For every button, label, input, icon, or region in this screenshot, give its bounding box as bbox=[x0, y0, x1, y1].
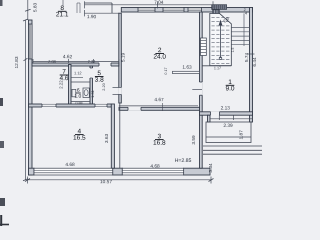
svg-text:2.20: 2.20 bbox=[101, 82, 106, 90]
svg-text:1.63: 1.63 bbox=[182, 65, 192, 71]
svg-text:2.13: 2.13 bbox=[221, 105, 231, 111]
svg-text:7.04: 7.04 bbox=[154, 0, 164, 6]
svg-text:1.12: 1.12 bbox=[74, 70, 82, 75]
svg-text:9.0: 9.0 bbox=[225, 85, 234, 92]
svg-text:2.39: 2.39 bbox=[223, 123, 233, 129]
svg-text:0.88: 0.88 bbox=[75, 101, 82, 105]
svg-text:5.19: 5.19 bbox=[120, 53, 126, 63]
svg-text:4.67: 4.67 bbox=[154, 97, 164, 103]
svg-text:3.34: 3.34 bbox=[208, 163, 214, 173]
svg-text:2.08: 2.08 bbox=[48, 59, 56, 64]
svg-text:6.44: 6.44 bbox=[252, 57, 258, 67]
svg-text:4.62: 4.62 bbox=[63, 54, 73, 60]
svg-text:1.17: 1.17 bbox=[214, 66, 221, 70]
svg-text:1.90: 1.90 bbox=[87, 14, 97, 20]
svg-text:4.68: 4.68 bbox=[150, 164, 160, 170]
svg-text:1.31: 1.31 bbox=[90, 90, 95, 98]
svg-text:16.5: 16.5 bbox=[73, 135, 86, 142]
svg-text:16.8: 16.8 bbox=[153, 140, 166, 147]
svg-text:1.87: 1.87 bbox=[239, 130, 245, 140]
svg-text:12.83: 12.83 bbox=[14, 56, 20, 68]
svg-text:5.83: 5.83 bbox=[33, 3, 39, 13]
svg-text:1.0: 1.0 bbox=[74, 94, 81, 100]
svg-text:4.6: 4.6 bbox=[59, 75, 68, 82]
svg-text:3.8: 3.8 bbox=[95, 77, 104, 84]
svg-text:3.63: 3.63 bbox=[104, 134, 110, 144]
svg-text:4.68: 4.68 bbox=[65, 162, 75, 168]
svg-text:4: 4 bbox=[245, 12, 247, 16]
svg-text:0.17: 0.17 bbox=[164, 67, 168, 74]
svg-text:1.5: 1.5 bbox=[231, 48, 235, 53]
svg-text:24.0: 24.0 bbox=[153, 54, 166, 61]
svg-text:10.57: 10.57 bbox=[100, 179, 112, 185]
svg-text:2.33: 2.33 bbox=[88, 59, 96, 64]
svg-text:3.59: 3.59 bbox=[191, 135, 197, 145]
svg-text:21.1: 21.1 bbox=[56, 11, 69, 18]
svg-text:H=2.85: H=2.85 bbox=[175, 158, 192, 164]
